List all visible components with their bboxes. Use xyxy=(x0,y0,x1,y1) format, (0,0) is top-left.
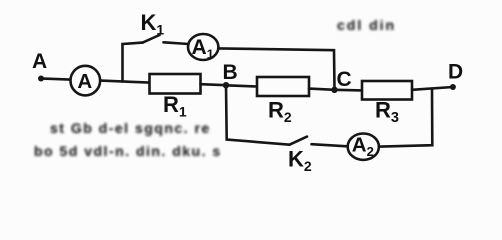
resistor R2 xyxy=(257,77,309,96)
ammeter A xyxy=(71,66,101,96)
wire A2 up to main line xyxy=(379,89,432,147)
wire C to R3 xyxy=(335,89,363,92)
wire R1 to B xyxy=(201,84,227,85)
switch K1 blade xyxy=(143,35,160,43)
ammeter A1 xyxy=(188,34,218,60)
wire K2 to A2 xyxy=(312,144,348,146)
wire K1 branch vertical xyxy=(123,43,143,82)
switch K2 blade xyxy=(290,137,308,145)
wire R2 to C xyxy=(309,89,335,90)
svg-text:cdl din: cdl din xyxy=(337,17,396,33)
ammeter A2 xyxy=(348,134,379,160)
node B xyxy=(223,82,229,88)
node A terminal dot xyxy=(38,76,44,82)
svg-text:A: A xyxy=(32,50,47,73)
node D terminal dot xyxy=(450,84,456,90)
svg-text:B: B xyxy=(223,61,238,84)
wire B down and across to K2 xyxy=(226,85,290,145)
wire K1 to A1 xyxy=(164,42,189,44)
svg-text:A: A xyxy=(77,70,92,93)
resistor R1 xyxy=(150,74,201,94)
resistor R3 xyxy=(362,81,412,100)
wire R3 to D xyxy=(412,87,453,90)
wire B to R2 xyxy=(226,85,257,86)
wire A to ammeter xyxy=(43,79,70,80)
svg-text:D: D xyxy=(448,60,463,83)
wire ammeter to R1 xyxy=(101,81,150,83)
svg-text:st Gb d-el sgqnc. re: st Gb d-el sgqnc. re xyxy=(50,120,211,136)
svg-text:bo 5d vdl-n. din. dku. s: bo 5d vdl-n. din. dku. s xyxy=(34,143,222,159)
node C xyxy=(331,87,337,93)
wire A1 to C branch xyxy=(218,48,334,89)
svg-text:C: C xyxy=(337,68,352,91)
